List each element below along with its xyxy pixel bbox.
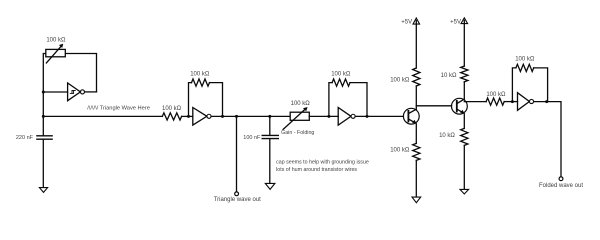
wire Q1 emitter fall — [415, 124, 417, 144]
svg-text:100 kΩ: 100 kΩ — [390, 148, 410, 154]
junction schmitt input node — [42, 91, 45, 94]
svg-text:lots of hum around transistor: lots of hum around transistor wires — [276, 167, 357, 173]
svg-text:220 nF: 220 nF — [16, 135, 34, 141]
resistor R6 100k collector — [413, 68, 420, 86]
capacitor C1 220nF plates — [37, 136, 52, 139]
svg-text:100 kΩ: 100 kΩ — [515, 57, 535, 63]
svg-text:100 nF: 100 nF — [243, 135, 261, 141]
wire Q1 collector riser — [415, 86, 417, 109]
op-amp U1 output bubble — [80, 90, 84, 94]
op-amp U2 output bubble — [207, 114, 211, 118]
svg-text:/\/\/\/ Triangle Wave Here: /\/\/\/ Triangle Wave Here — [87, 105, 150, 111]
op-amp U4 inverter triangle — [518, 93, 530, 111]
power +5V symbol at Q1 — [413, 18, 420, 24]
wire schmitt output — [85, 91, 97, 93]
resistor R9 100k series — [486, 98, 504, 105]
wire schmitt input — [43, 91, 67, 93]
svg-text:Folded wave out: Folded wave out — [539, 183, 583, 189]
junction U4 feedback node — [545, 100, 548, 103]
transistor Q1 collector stroke — [408, 109, 416, 113]
junction U2 input node — [187, 115, 190, 118]
potentiometer R1 wiper arrow — [46, 46, 61, 63]
op-amp U4 output bubble — [529, 99, 533, 103]
wire feedback top (pot right lead down to schmitt output) — [65, 54, 96, 92]
wire U3 feedback right riser — [350, 83, 367, 117]
junction U2 feedback node — [221, 115, 224, 118]
wire left vertical (pot left lead down to 220nF cap) — [43, 54, 46, 136]
op-amp U3 inverter triangle — [338, 108, 351, 126]
svg-text:100 kΩ: 100 kΩ — [291, 101, 311, 107]
potentiometer R4 gain body — [290, 112, 309, 120]
svg-text:10 kΩ: 10 kΩ — [441, 73, 457, 79]
ground under C2 — [265, 183, 275, 189]
svg-text:100 kΩ: 100 kΩ — [46, 37, 66, 43]
svg-text:100 kΩ: 100 kΩ — [331, 71, 351, 77]
potentiometer R4 wiper arrow — [283, 109, 306, 130]
resistor R2 100k series — [162, 113, 181, 120]
transistor Q2 emitter arrowhead — [460, 110, 465, 114]
resistor R3 100k feedback — [192, 79, 210, 86]
junction U3 feedback node — [366, 115, 369, 118]
svg-text:+5V: +5V — [450, 19, 461, 25]
ground under Q1 emitter — [412, 197, 421, 203]
terminal folded wave out — [559, 177, 563, 181]
transistor Q1 circle — [403, 108, 419, 124]
wire Q2 emitter fall — [463, 114, 465, 129]
svg-text:Triangle wave out: Triangle wave out — [214, 197, 261, 203]
ground under C1 — [39, 188, 47, 193]
transistor Q2 base bar — [456, 101, 458, 112]
transistor Q1 emitter arrowhead — [412, 120, 417, 124]
svg-text:100 kΩ: 100 kΩ — [162, 106, 182, 112]
wire main triangle net — [43, 115, 162, 117]
op-amp U3 output bubble — [351, 114, 355, 118]
wire R7 to ground — [415, 160, 417, 197]
svg-text:100 kΩ: 100 kΩ — [390, 77, 410, 83]
junction U3 input node — [327, 115, 330, 118]
wire U2 feedback left riser — [189, 83, 192, 117]
transistor Q1 emitter stroke — [408, 119, 415, 123]
transistor Q2 collector stroke — [457, 99, 465, 103]
svg-text:cap seems to help with groundi: cap seems to help with grounding issue — [276, 159, 369, 165]
op-amp U1 schmitt inverter triangle — [68, 83, 81, 101]
wire R10 to ground — [463, 145, 465, 189]
resistor R7 100k emitter — [413, 143, 420, 160]
transistor Q1 base bar — [407, 111, 409, 122]
wire pot R4 to U3 input — [309, 115, 338, 117]
op-amp U2 inverter triangle — [193, 108, 207, 126]
resistor R5 100k feedback — [332, 79, 350, 86]
wire U3 output to Q1 base — [355, 115, 403, 117]
junction triangle net tap — [42, 115, 45, 118]
potentiometer R1 100k body — [46, 49, 66, 56]
svg-text:10 kΩ: 10 kΩ — [439, 133, 455, 139]
power +5V symbol at Q2 — [461, 18, 468, 24]
wire Q2 collector riser — [463, 82, 465, 99]
terminal triangle wave out — [235, 192, 239, 196]
transistor Q2 emitter stroke — [457, 109, 463, 113]
svg-text:+5V: +5V — [401, 19, 412, 25]
wire U4 feedback left riser — [512, 68, 516, 102]
junction U4 input node — [511, 100, 514, 103]
resistor R11 100k feedback — [516, 64, 534, 71]
capacitor C2 100nF plates — [262, 135, 278, 138]
junction triangle out branch — [235, 115, 238, 118]
wire R9 to U4 input — [504, 101, 517, 103]
svg-text:100 kΩ: 100 kΩ — [190, 71, 210, 77]
wire R8 to +5V — [463, 20, 465, 66]
wire cap C1 to ground — [42, 139, 44, 187]
wire U2 output to gain pot — [211, 115, 290, 117]
schmitt hysteresis mark — [70, 90, 75, 93]
transistor Q2 circle — [452, 98, 468, 114]
resistor R10 10k emitter — [461, 128, 468, 145]
potentiometer R1 arrowhead — [59, 44, 63, 48]
junction C2 branch — [268, 115, 271, 118]
wire U4 feedback right riser — [534, 68, 548, 102]
wire triangle out branch — [236, 116, 238, 191]
wire Q1 collector to Q2 base — [416, 105, 451, 107]
wire C2 branch — [269, 116, 271, 135]
wire U4 output to folded out — [534, 102, 561, 177]
wire Q2 collector to R9 — [464, 101, 486, 103]
resistor R8 10k collector — [461, 66, 468, 82]
wire C2 to ground — [269, 139, 271, 184]
svg-text:100 kΩ: 100 kΩ — [486, 92, 506, 98]
wire R6 to +5V — [415, 21, 417, 69]
wire R2 to U2 input — [182, 115, 193, 117]
svg-text:Gain - Folding: Gain - Folding — [281, 130, 314, 136]
ground under Q2 emitter — [460, 189, 469, 194]
potentiometer R4 arrowhead — [303, 107, 308, 111]
wire U3 feedback left riser — [329, 83, 332, 117]
wire U2 feedback right riser — [210, 83, 223, 117]
